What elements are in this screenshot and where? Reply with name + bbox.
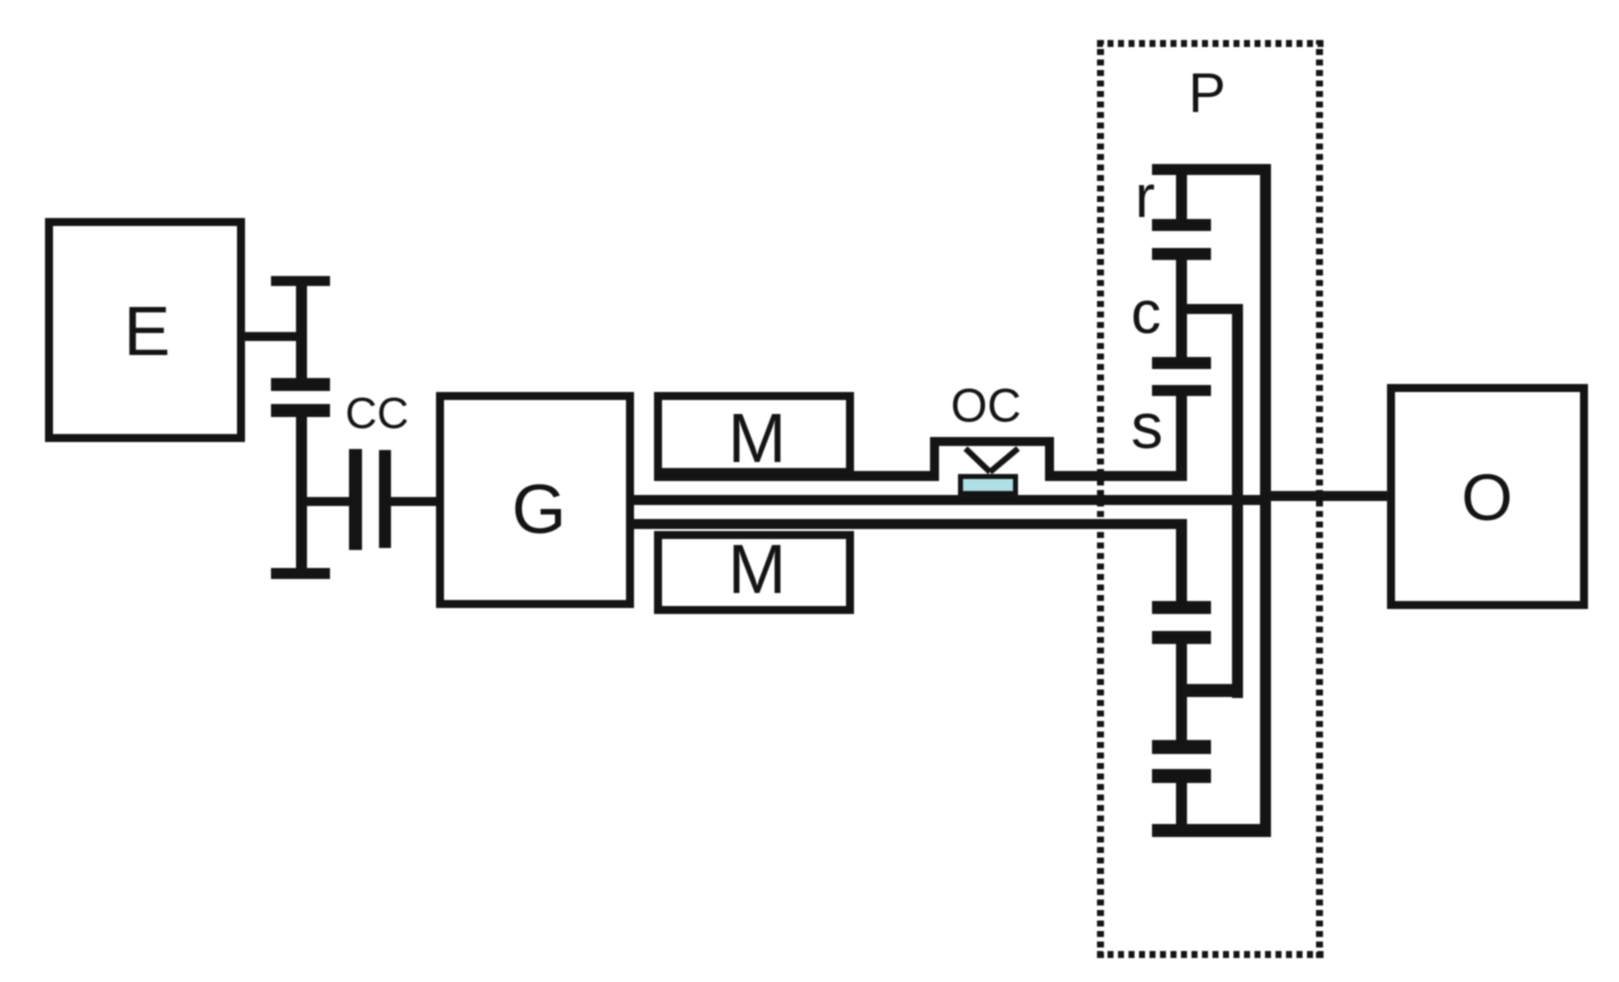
box G (generator) (436, 392, 634, 608)
mesh bar lower B (1152, 631, 1211, 644)
mesh bar lower D (1152, 769, 1211, 783)
OC right step (1045, 437, 1054, 481)
wire damper to clutch CC (302, 497, 352, 506)
clutch CC right plate (379, 450, 391, 548)
lower branch vertical from lower shaft (1176, 519, 1187, 613)
mesh bar r2 (1152, 248, 1211, 260)
label s (1131, 394, 1163, 458)
label E (124, 296, 171, 366)
label M upper (728, 403, 786, 473)
damper bottom cap (271, 568, 330, 579)
output shaft carrier to O (1260, 491, 1387, 501)
wire clutch CC to G (390, 497, 436, 506)
ring bottom cap (1152, 824, 1271, 837)
main shaft G to carrier (630, 495, 1271, 505)
sun shaft vertical (1176, 390, 1187, 480)
planetary gear set box P (dotted border left) (1097, 40, 1104, 958)
axis vertical c to s mesh (1176, 308, 1187, 369)
damper upper shaft vertical (296, 276, 307, 391)
planetary gear set box P (dotted border top) (1097, 40, 1324, 47)
label G (512, 474, 566, 544)
damper lower shaft vertical (296, 404, 307, 579)
label O (1461, 464, 1512, 530)
label CC (345, 392, 409, 436)
lower axis vertical (1176, 638, 1187, 750)
damper top cap (271, 276, 330, 286)
wire E to damper (240, 332, 302, 341)
upper shaft OC to sun (1054, 471, 1187, 481)
mesh bar r1 (1152, 219, 1211, 231)
damper lower plate (271, 404, 330, 417)
mesh bar lower A (1152, 601, 1211, 614)
OC top bar (930, 437, 1054, 446)
OC inner race block (958, 474, 1018, 496)
label M lower (728, 534, 786, 604)
ring top cap (1152, 164, 1271, 175)
carrier vertical (1232, 304, 1243, 698)
OC left step (930, 437, 939, 481)
label c (1131, 283, 1161, 343)
mesh bar s2 (1152, 385, 1211, 396)
box M upper (motor) (654, 392, 854, 476)
box O (output) (1387, 384, 1588, 609)
label r (1135, 167, 1155, 227)
ring shaft vertical (1176, 164, 1187, 225)
carrier junction horizontal (1182, 304, 1243, 314)
carrier bottom junction horizontal (1182, 684, 1243, 697)
label OC (951, 382, 1022, 429)
upper shaft M to OC (853, 471, 933, 481)
OC sprag V (950, 440, 1030, 480)
planetary gear set box P (dotted border right) (1316, 40, 1323, 958)
mesh bar lower C (1152, 740, 1211, 754)
planetary gear set box P (dotted border bottom) (1097, 951, 1324, 958)
lower shaft G to planetary (630, 519, 1187, 529)
box E (engine) (45, 218, 245, 442)
ring frame vertical (1260, 164, 1271, 837)
mesh bar s1 (1152, 357, 1211, 369)
clutch CC left plate (349, 449, 362, 550)
damper upper plate (271, 378, 330, 391)
box M lower (motor) (654, 531, 854, 614)
upper shaft along M bottom (654, 471, 854, 481)
label P (1188, 65, 1225, 121)
lower axis vertical to bottom cap (1176, 776, 1187, 837)
carrier shaft vertical upper (1176, 254, 1187, 312)
